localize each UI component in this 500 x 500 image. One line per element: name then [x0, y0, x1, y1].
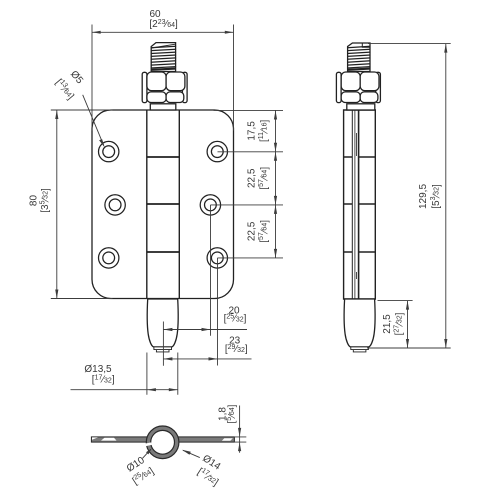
svg-text:129,5: 129,5 [418, 184, 429, 209]
svg-text:[53⁄32]: [53⁄32] [430, 184, 442, 209]
svg-text:22,5: 22,5 [247, 168, 258, 188]
svg-text:22,5: 22,5 [247, 221, 258, 241]
svg-text:[35⁄32]: [35⁄32] [39, 188, 51, 213]
svg-text:21,5: 21,5 [382, 314, 393, 334]
svg-text:17,5: 17,5 [247, 121, 258, 141]
svg-text:80: 80 [28, 195, 39, 207]
